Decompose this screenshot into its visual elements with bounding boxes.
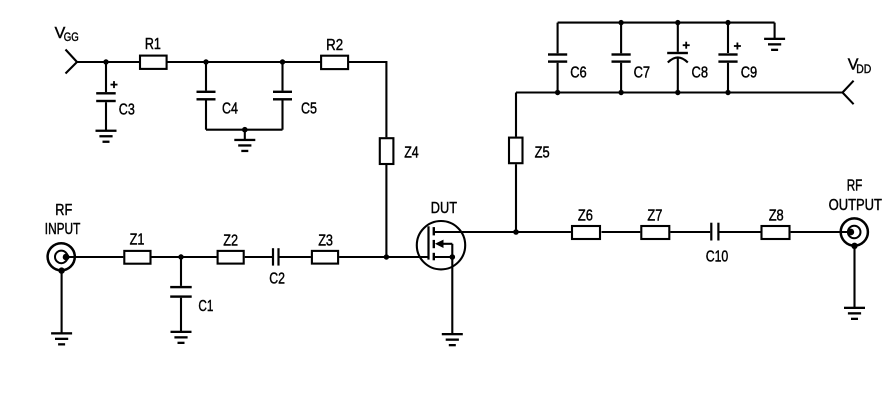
svg-text:C9: C9 [741,64,758,81]
svg-text:C1: C1 [198,298,213,315]
svg-text:R2: R2 [326,37,343,54]
svg-text:Z5: Z5 [535,144,550,161]
svg-text:Z8: Z8 [769,208,784,225]
svg-text:Z1: Z1 [130,232,145,249]
svg-text:INPUT: INPUT [45,221,81,238]
svg-text:OUTPUT: OUTPUT [829,197,883,214]
svg-text:Z7: Z7 [647,208,662,225]
svg-text:DD: DD [856,64,871,76]
svg-text:Z3: Z3 [318,233,333,250]
svg-text:C10: C10 [706,249,729,266]
svg-text:R1: R1 [145,36,161,53]
svg-text:Z4: Z4 [404,145,419,162]
svg-text:C3: C3 [119,101,135,118]
svg-text:C4: C4 [222,101,238,118]
svg-text:C6: C6 [570,64,587,81]
svg-text:Z6: Z6 [578,208,593,225]
svg-text:C2: C2 [269,271,285,288]
svg-text:Z2: Z2 [223,233,238,250]
svg-text:RF: RF [847,178,863,195]
svg-text:RF: RF [55,202,72,219]
svg-text:C5: C5 [301,101,317,118]
svg-text:C8: C8 [692,64,709,81]
svg-text:GG: GG [64,32,79,44]
svg-text:C7: C7 [634,64,651,81]
svg-text:DUT: DUT [431,200,457,217]
